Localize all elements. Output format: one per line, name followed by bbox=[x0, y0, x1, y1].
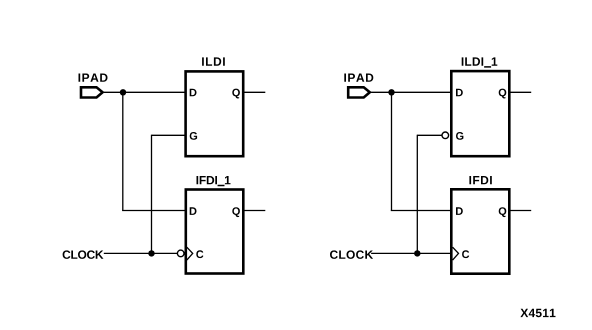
junction node on CLOCK net (right) bbox=[414, 250, 420, 256]
wire junction down to IFDI_1 D row bbox=[122, 92, 124, 210]
wire CLOCK to C of IFDI bbox=[371, 252, 452, 254]
flip-flop IFDI_1 box bbox=[186, 190, 244, 274]
wire to D of IFDI_1 bbox=[122, 210, 186, 212]
pin D of IFDI_1 bbox=[190, 207, 197, 215]
inversion bubble on G of ILDI_1 bbox=[442, 132, 449, 139]
label CLOCK (right) bbox=[330, 250, 373, 259]
pin Q of IFDI bbox=[499, 207, 507, 217]
clock triangle of IFDI_1 bbox=[187, 247, 193, 260]
pad IPAD (right input pad symbol) bbox=[348, 87, 370, 97]
wire clock net vertical (right) bbox=[416, 135, 418, 254]
pad IPAD (left input pad symbol) bbox=[81, 87, 103, 97]
inversion bubble on C of IFDI_1 bbox=[177, 250, 184, 257]
flip-flop IFDI box bbox=[451, 189, 509, 273]
wire clock net vertical (left) bbox=[151, 135, 153, 254]
latch ILDI_1 box bbox=[451, 71, 509, 156]
wire IPAD to D of ILDI_1 bbox=[371, 91, 451, 93]
label IFDI_1 bbox=[197, 176, 231, 186]
latch ILDI box bbox=[186, 71, 244, 156]
pin Q of ILDI bbox=[232, 89, 240, 99]
junction node on IPAD net (right) bbox=[388, 89, 394, 95]
junction node on IPAD net (left) bbox=[120, 89, 126, 95]
wire Q output of IFDI bbox=[510, 210, 531, 212]
pin G of ILDI bbox=[190, 132, 197, 140]
pin C of IFDI_1 bbox=[196, 250, 203, 258]
label CLOCK (left) bbox=[63, 250, 104, 259]
wire junction down to IFDI D row bbox=[391, 92, 393, 210]
wire clock net to G bubble (right) bbox=[417, 134, 442, 136]
pin Q of IFDI_1 bbox=[232, 207, 240, 217]
pin C of IFDI bbox=[462, 250, 469, 258]
label ILDI_1 bbox=[462, 57, 498, 67]
pin D of IFDI bbox=[456, 207, 463, 215]
label IFDI bbox=[469, 176, 491, 184]
label ILDI bbox=[202, 57, 225, 65]
pin G of ILDI_1 bbox=[456, 132, 463, 140]
pin Q of ILDI_1 bbox=[499, 89, 507, 99]
clock triangle of IFDI bbox=[453, 247, 459, 260]
label IPAD (right) bbox=[344, 74, 373, 82]
junction node on CLOCK net (left) bbox=[148, 250, 154, 256]
wire IPAD to D of ILDI bbox=[104, 91, 186, 93]
pin D of ILDI bbox=[190, 89, 197, 97]
pin D of ILDI_1 bbox=[456, 89, 463, 97]
wire G of ILDI to clock net bbox=[152, 134, 187, 136]
wire Q output of IFDI_1 bbox=[245, 210, 266, 212]
wire Q output of ILDI bbox=[244, 91, 265, 93]
wire to D of IFDI bbox=[391, 210, 452, 212]
wire CLOCK to C bubble (left) bbox=[104, 252, 177, 254]
label IPAD (left) bbox=[79, 74, 108, 82]
wire Q output of ILDI_1 bbox=[510, 91, 531, 93]
figure number X4511 bbox=[520, 309, 555, 317]
